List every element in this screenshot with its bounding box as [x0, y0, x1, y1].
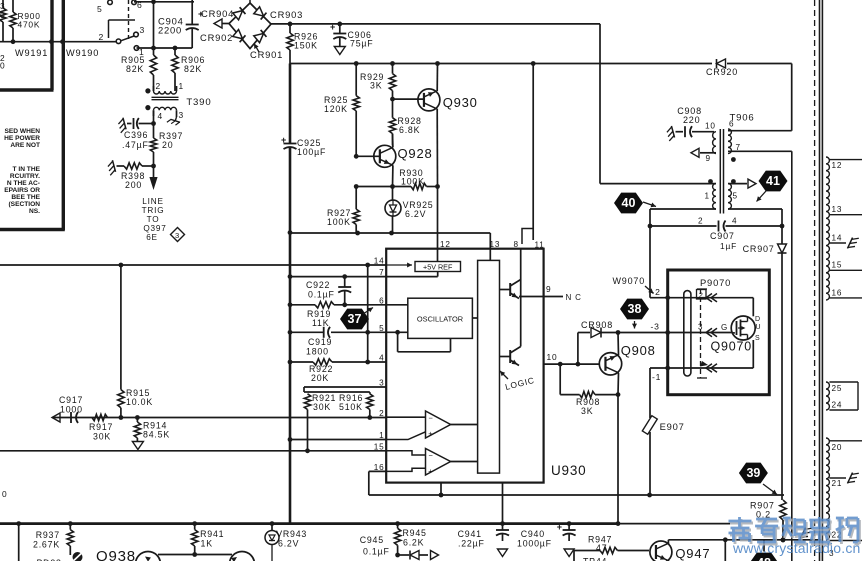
chassis mark near tap 22: [800, 526, 811, 541]
wire R905 line: [153, 2, 155, 91]
hex ref 48: [750, 540, 779, 561]
wire pin 12 internal: [437, 249, 439, 262]
bus bar left thick 2 / warning box right border: [0, 0, 65, 230]
svg-text:120K: 120K: [324, 104, 348, 114]
wire -1 entry: [650, 366, 753, 382]
svg-text:C907: C907: [710, 231, 735, 241]
svg-text:C922: C922: [306, 280, 330, 290]
wire pin 15: [0, 450, 386, 452]
wire T906 pin 7: [728, 150, 792, 152]
svg-text:11K: 11K: [312, 318, 329, 328]
wire CR908 node to -3: [618, 330, 670, 335]
resistor R925: [324, 64, 359, 157]
svg-text:48: 48: [757, 556, 771, 561]
svg-text:R937: R937: [36, 530, 60, 540]
wire -2 entry: [652, 287, 754, 300]
transistor Q908: [599, 343, 655, 375]
svg-text:20: 20: [832, 443, 843, 452]
svg-text:VR943: VR943: [276, 529, 307, 539]
wire CR907 chain: [781, 226, 783, 500]
svg-text:10: 10: [547, 352, 558, 362]
wire Q908 collector: [617, 333, 620, 356]
svg-text:C941: C941: [458, 529, 482, 539]
transistor Q930: [418, 89, 478, 111]
svg-text:6.2V: 6.2V: [405, 209, 426, 219]
common bus: [0, 521, 730, 526]
wire pin 7: [290, 276, 386, 278]
svg-text:HE POWER: HE POWER: [4, 135, 40, 142]
svg-text:6.2V: 6.2V: [278, 539, 299, 549]
resistor R907: [750, 500, 786, 542]
svg-text:47: 47: [596, 543, 607, 553]
svg-text:1: 1: [705, 192, 710, 201]
wire pin2 node down to P9070 -2: [650, 209, 668, 298]
svg-text:30K: 30K: [313, 402, 331, 412]
wire pin13 internal: [489, 249, 491, 261]
svg-text:SED WHEN: SED WHEN: [4, 128, 40, 135]
hex ref 41: [757, 171, 788, 202]
wire pin 6 with R919: [290, 302, 386, 308]
svg-text:+: +: [330, 22, 336, 32]
svg-text:6.2K: 6.2K: [403, 538, 424, 548]
Q9070 label: [711, 340, 753, 354]
winding tap 14: [829, 234, 858, 251]
svg-text:Q9070: Q9070: [711, 340, 753, 354]
wire R906 line: [174, 48, 176, 91]
svg-text:R917: R917: [89, 422, 113, 432]
svg-text:82K: 82K: [126, 64, 144, 74]
diamond reference 3: [171, 228, 185, 242]
resistor R921: [304, 387, 336, 453]
wire switch to transformer top: [137, 46, 193, 51]
chevron pin 1: [700, 361, 717, 372]
svg-text:C945: C945: [360, 535, 384, 545]
svg-text:0: 0: [2, 489, 7, 499]
resistor R945: [394, 524, 426, 558]
winding tap 12: [829, 160, 862, 170]
svg-text:G: G: [721, 323, 728, 332]
resistor R922 label: [309, 364, 333, 383]
svg-text:0.1µF: 0.1µF: [363, 547, 390, 557]
svg-text:10: 10: [705, 122, 716, 131]
svg-text:39: 39: [746, 466, 760, 480]
svg-text:1000µF: 1000µF: [517, 539, 552, 549]
winding tap 21: [829, 471, 858, 488]
watermark crystalradio: [729, 517, 861, 556]
resistor R916: [308, 392, 374, 420]
svg-text:Q928: Q928: [398, 146, 433, 161]
svg-text:LINE: LINE: [142, 197, 163, 206]
svg-text:2: 2: [699, 291, 704, 300]
svg-text:E907: E907: [660, 421, 685, 432]
svg-text:Q947: Q947: [675, 546, 710, 561]
svg-text:20: 20: [162, 140, 173, 150]
resistor R930: [354, 168, 440, 190]
svg-text:6: 6: [137, 0, 143, 10]
svg-text:0: 0: [0, 61, 5, 71]
wire CR920 loop to T906 pin 6: [728, 64, 792, 131]
svg-text:470K: 470K: [18, 20, 41, 30]
comparator 1: [386, 411, 477, 440]
svg-text:37: 37: [348, 312, 362, 326]
pin labels left: [374, 257, 385, 472]
resistor R398: [107, 160, 156, 190]
svg-text:CR904: CR904: [201, 8, 234, 19]
resistor R917: [89, 414, 113, 441]
svg-text:2: 2: [99, 32, 105, 42]
resistor fragment left edge: [0, 0, 6, 42]
svg-text:13: 13: [832, 205, 843, 214]
svg-text:2.67K: 2.67K: [33, 540, 60, 550]
svg-text:Q938: Q938: [96, 548, 136, 561]
winding tap 22: [829, 531, 862, 541]
capacitor C925: [281, 64, 326, 158]
hex ref 39: [739, 463, 777, 495]
resistor R905: [121, 55, 157, 75]
resistor R941: [192, 524, 225, 557]
svg-text:C917: C917: [59, 395, 83, 405]
svg-text:CR901: CR901: [250, 49, 283, 60]
svg-text:TP44: TP44: [583, 557, 607, 561]
comparator 2: [386, 449, 477, 476]
svg-text:24: 24: [832, 401, 843, 410]
pin labels top: [440, 240, 545, 250]
svg-text:S: S: [755, 335, 760, 342]
warning note text: [4, 128, 41, 215]
LOGIC label: [500, 371, 536, 392]
node W9191: [15, 48, 48, 58]
bold vertical common line: [288, 148, 293, 524]
svg-text:RCUITRY.: RCUITRY.: [10, 173, 40, 180]
svg-text:R941: R941: [200, 529, 224, 539]
pin 2 box marker: [697, 290, 707, 300]
wire down to T906 pin 1: [600, 24, 716, 184]
wire pin 11 drop: [522, 64, 533, 245]
capacitor C940: [517, 522, 576, 557]
svg-text:11: 11: [535, 241, 545, 250]
svg-text:-3: -3: [651, 322, 660, 332]
zener VR943: [265, 524, 307, 561]
svg-text:W9190: W9190: [66, 48, 99, 58]
capacitor C906: [330, 22, 373, 55]
resistor R915: [118, 265, 153, 418]
svg-text:82K: 82K: [184, 64, 202, 74]
svg-text:1800: 1800: [306, 347, 329, 357]
capacitor C396: [117, 118, 156, 150]
svg-text:25: 25: [832, 384, 843, 393]
svg-text:0.1µF: 0.1µF: [308, 290, 335, 300]
svg-text:10.0K: 10.0K: [126, 397, 153, 407]
wire T906 pin 2: [650, 208, 716, 210]
diode CR908: [578, 320, 620, 364]
svg-text:12: 12: [832, 161, 843, 170]
svg-text:Q397: Q397: [143, 224, 166, 233]
svg-text:C940: C940: [521, 529, 545, 539]
wire pin 12 drop: [437, 187, 439, 249]
svg-text:5: 5: [733, 192, 738, 201]
connector module box: [668, 270, 770, 395]
transistor Q947: [650, 541, 711, 561]
capacitor C908: [666, 106, 714, 141]
resistor R397: [150, 110, 183, 166]
svg-text:1K: 1K: [201, 539, 213, 549]
wire box bottom pin to bus: [502, 483, 504, 524]
svg-text:20K: 20K: [311, 373, 329, 383]
wire pin 14: [0, 263, 386, 268]
hex ref 38: [620, 299, 649, 329]
svg-text:+5V REF: +5V REF: [423, 263, 453, 272]
LINE TRIG label: [142, 197, 167, 242]
U930 label: [551, 463, 586, 478]
svg-text:100K: 100K: [327, 217, 351, 227]
svg-text:www.crystalradio.cn: www.crystalradio.cn: [732, 540, 861, 556]
svg-text:.47µF: .47µF: [122, 140, 149, 150]
svg-text:BEE THE: BEE THE: [11, 194, 40, 201]
svg-text:75µF: 75µF: [350, 39, 373, 49]
resistor R906: [172, 55, 205, 74]
chassis ground T390 pin3: [167, 115, 181, 126]
svg-text:0: 0: [0, 10, 5, 20]
svg-text:D: D: [755, 316, 761, 323]
svg-text:TRIG: TRIG: [142, 206, 165, 215]
transistor Q938: [96, 548, 255, 561]
svg-text:220: 220: [683, 115, 700, 125]
wire pin 4 with R922: [290, 359, 386, 365]
svg-text:84.5K: 84.5K: [143, 430, 170, 440]
svg-text:4: 4: [158, 111, 163, 121]
resistor R926: [287, 24, 318, 64]
svg-text:12: 12: [440, 240, 451, 249]
wire +5V REF to pin 7: [386, 272, 438, 277]
wire pin14 internal arrow: [386, 263, 412, 268]
logic block: [478, 260, 500, 473]
svg-text:W9191: W9191: [15, 48, 48, 58]
svg-text:-1: -1: [652, 372, 661, 382]
wire Q947 collector: [668, 537, 823, 543]
svg-text:40: 40: [622, 196, 636, 210]
svg-text:3: 3: [175, 231, 180, 240]
svg-text:5: 5: [97, 4, 103, 14]
wire pin 9 NC: [519, 284, 582, 302]
svg-text:.22µF: .22µF: [458, 539, 485, 549]
connector oval P9070: [684, 291, 691, 376]
svg-text:Q908: Q908: [621, 343, 656, 358]
resistor R928: [389, 99, 421, 145]
diode CR907: [743, 244, 787, 254]
cut fragment bottom right corner: [829, 549, 834, 558]
test point TP44: [574, 551, 607, 561]
svg-text:16: 16: [832, 289, 843, 298]
resistor R937: [33, 524, 74, 561]
node label W9070: [613, 276, 654, 294]
svg-text:TO: TO: [147, 215, 160, 224]
svg-text:14: 14: [832, 234, 843, 243]
wire pin 1: [290, 439, 386, 441]
hex ref 37: [340, 308, 373, 330]
transformer T906: [698, 113, 755, 226]
svg-text:U930: U930: [551, 463, 586, 478]
cut label fragments left edge: [0, 1, 5, 71]
svg-text:Q930: Q930: [443, 95, 478, 110]
svg-text:U: U: [756, 324, 762, 331]
svg-text:1000: 1000: [60, 405, 83, 415]
svg-text:1: 1: [179, 81, 184, 91]
capacitor C907: [648, 221, 785, 252]
resistor R947: [574, 535, 649, 554]
line selector switch S900: [97, 0, 145, 57]
resistor R929: [360, 72, 396, 91]
wire Q928 collector-emitter: [390, 134, 395, 189]
svg-text:200: 200: [125, 180, 142, 190]
node W9190: [66, 48, 99, 58]
svg-text:W9070: W9070: [613, 276, 646, 286]
transformer T390: [145, 81, 211, 121]
capacitor C941: [458, 524, 509, 557]
svg-text:T390: T390: [186, 97, 211, 108]
resistor R908: [560, 364, 618, 416]
wire pin 3: [304, 386, 386, 388]
svg-text:+: +: [281, 135, 287, 145]
polarity mark: [73, 552, 83, 561]
wire top feed: [134, 0, 194, 4]
wire node to pin 13: [289, 231, 490, 249]
svg-text:2: 2: [156, 81, 161, 91]
svg-text:C919: C919: [308, 337, 332, 347]
svg-text:+: +: [428, 467, 433, 476]
wire T906 pin 9 arrow: [691, 148, 716, 157]
wire U930 pin 10: [544, 352, 599, 367]
capacitor C917: [52, 395, 83, 423]
svg-text:2: 2: [698, 217, 703, 226]
chevron pin 3: [706, 328, 717, 336]
bus bar left thick 1: [0, 0, 54, 90]
svg-text:CR920: CR920: [706, 67, 738, 77]
wire T906 pin 4: [728, 209, 782, 226]
svg-text:21: 21: [832, 479, 843, 488]
winding tap 24: [829, 401, 858, 411]
transformer secondary windings right: [826, 157, 829, 540]
svg-text:9: 9: [546, 284, 551, 294]
svg-text:2200: 2200: [158, 25, 182, 36]
wire pin 2: [52, 415, 386, 420]
svg-text:N THE AC-: N THE AC-: [7, 180, 40, 187]
transistor internal top pin9: [500, 249, 521, 299]
svg-text:CR907: CR907: [743, 244, 775, 254]
capacitor C945 label: [360, 535, 390, 557]
wire pin 5 with C919: [290, 327, 386, 338]
transistor Q928: [374, 145, 433, 167]
svg-text:CR908: CR908: [581, 320, 613, 330]
svg-text:C396: C396: [124, 130, 148, 140]
resistor R914: [132, 418, 170, 450]
svg-text:P9070: P9070: [700, 277, 731, 288]
svg-text:30K: 30K: [93, 432, 111, 442]
svg-text:3K: 3K: [370, 81, 382, 91]
wire box bottom pin to node: [440, 483, 442, 495]
capacitor C922: [306, 274, 351, 307]
svg-text:8: 8: [514, 240, 519, 249]
svg-text:ARE NOT: ARE NOT: [10, 142, 40, 149]
svg-text:41: 41: [766, 174, 780, 188]
wire Q908 emitter to bus: [616, 373, 621, 526]
wire Q928 base: [354, 154, 380, 159]
LINE TRIG terminal arrow: [149, 166, 157, 190]
chevron pin 2: [706, 294, 717, 302]
svg-text:13: 13: [490, 240, 501, 249]
winding tap 25: [829, 382, 858, 410]
IC U930 box: [386, 249, 543, 483]
wire pin 16: [369, 471, 784, 497]
AC input arrow: [214, 19, 229, 28]
svg-text:N C: N C: [566, 293, 582, 302]
dashed core line right: [814, 0, 816, 561]
svg-text:CR902: CR902: [200, 32, 233, 43]
svg-text:6.8K: 6.8K: [399, 125, 420, 135]
P9070 label: [700, 277, 731, 288]
jumper E907: [642, 368, 684, 495]
wire pin5 internal: [386, 330, 450, 352]
svg-text:−: −: [429, 414, 434, 423]
svg-text:NS.: NS.: [29, 208, 40, 215]
wire -3 entry: [651, 322, 732, 333]
resistor R900: [10, 0, 41, 44]
svg-text:150K: 150K: [294, 41, 318, 51]
svg-text:3: 3: [140, 25, 146, 35]
svg-text:+: +: [557, 522, 563, 532]
svg-text:510K: 510K: [339, 402, 363, 412]
bridge rectifier CR901-CR904: [200, 0, 303, 60]
svg-text:R945: R945: [403, 528, 427, 538]
wire osc to logic: [472, 317, 477, 319]
svg-text:3: 3: [179, 110, 184, 120]
svg-text:EPAIRS OR: EPAIRS OR: [4, 187, 40, 194]
svg-text:100µF: 100µF: [297, 147, 326, 157]
winding tap 13: [829, 205, 862, 215]
resistor R919 label: [307, 309, 331, 328]
diode D945: [410, 551, 439, 560]
svg-text:CR903: CR903: [270, 9, 303, 20]
transistor internal bottom pin10: [500, 280, 521, 366]
svg-text:38: 38: [628, 302, 642, 316]
svg-text:(SECTION: (SECTION: [8, 201, 40, 208]
supply rail: [290, 61, 792, 66]
MOSFET Q9070: [721, 298, 761, 368]
svg-text:T IN THE: T IN THE: [13, 166, 41, 173]
wire pin6 internal: [386, 304, 408, 306]
OSCILLATOR box: [408, 298, 473, 338]
zener VR925: [385, 187, 434, 234]
svg-text:−: −: [429, 451, 434, 460]
svg-text:100K: 100K: [401, 176, 425, 186]
wire T906 pin 5 arrow: [728, 179, 756, 188]
svg-text:1µF: 1µF: [720, 241, 737, 251]
boundary double line: [820, 0, 823, 561]
svg-text:4: 4: [732, 217, 737, 226]
winding tap 16: [829, 289, 862, 298]
svg-text:+: +: [428, 429, 433, 438]
svg-text:9: 9: [706, 154, 711, 163]
wire Q930 base: [390, 91, 424, 102]
svg-text:6: 6: [729, 120, 734, 129]
svg-text:6E: 6E: [146, 233, 158, 242]
wire drop hex48: [724, 540, 726, 561]
capacitor C919 label: [306, 337, 332, 357]
wire stub bottom left: [2, 489, 19, 561]
dashed bracket: [697, 289, 707, 378]
svg-text:-2: -2: [652, 287, 661, 297]
wire Q930 collector-emitter: [436, 64, 438, 187]
winding tap 20: [829, 441, 862, 452]
